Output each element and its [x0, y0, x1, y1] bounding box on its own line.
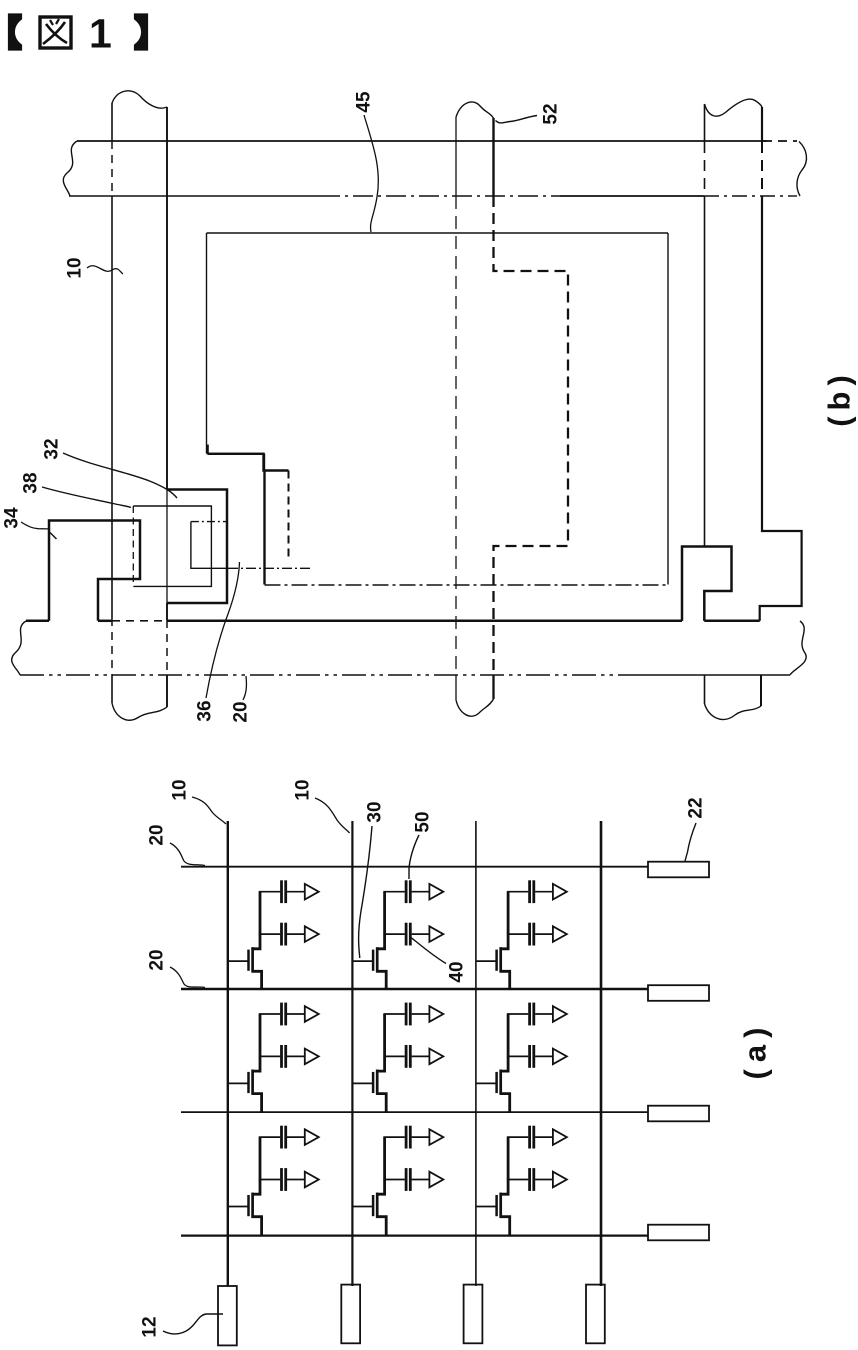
pad 12 data line 3 [464, 1285, 483, 1344]
leader 50 [409, 835, 419, 879]
capacitor 50 branch 2 r2c1 [280, 1045, 283, 1068]
diode 40 branch 1 r1c2 [429, 884, 443, 900]
leader 45 [364, 115, 378, 232]
scan line 20 row 2 (a) [181, 988, 648, 991]
svg-text:36: 36 [195, 700, 216, 721]
title kanji ZU (figure) [40, 17, 71, 48]
break squiggle left of top band [63, 141, 77, 196]
wire cap-to-diode branch 1 r2c1 [287, 1013, 305, 1015]
wire cap-to-diode branch 1 r1c3 [535, 891, 553, 893]
wire branch 2 r3c3 [507, 1179, 528, 1181]
svg-text:10: 10 [65, 257, 86, 278]
svg-text:45: 45 [354, 91, 375, 113]
leader 30 [359, 826, 372, 958]
capacitor 50 branch 2 r3c2 [405, 1168, 408, 1191]
drain electrode 36 dashed right edge [288, 471, 290, 562]
break squiggle bottom of data line 10 [112, 703, 167, 720]
leader 10 col2 (a) [315, 798, 350, 833]
svg-text:52: 52 [541, 103, 562, 124]
wire branch 2 r2c2 [383, 1055, 404, 1057]
wire scan line 20 bottom edge (b) [20, 674, 640, 676]
wire cap-to-diode branch 1 r3c1 [287, 1136, 305, 1138]
break squiggle top of right data line [705, 99, 763, 116]
diode 40 branch 1 r3c1 [305, 1129, 319, 1145]
leader 12 [163, 1314, 223, 1334]
wire cap-to-diode branch 2 r1c1 [287, 933, 305, 935]
wire cap-to-diode branch 1 r3c2 [412, 1136, 430, 1138]
wire scan line band bottom edge (b) [69, 195, 320, 197]
capacitor 50 branch 2 r1c1 [280, 923, 283, 946]
title bracket left [9, 14, 22, 50]
wire cap-to-diode branch 2 r1c2 [412, 933, 430, 935]
wire cap-to-diode branch 1 r2c3 [535, 1013, 553, 1015]
pad 12 data line 4 [586, 1285, 605, 1344]
break squiggle top of line 52 [456, 102, 494, 118]
leader 10 (b) [87, 266, 123, 274]
wire branch 2 r1c1 [259, 933, 280, 935]
data line 10 column 3 (a) [475, 821, 477, 1286]
svg-text:(a): (a) [738, 1021, 773, 1080]
wire cap-to-diode branch 1 r1c2 [412, 891, 430, 893]
data line 10 right edge [166, 107, 168, 490]
transistor TFT r2c1 [228, 1082, 249, 1084]
source electrode 34 leader tick [50, 533, 57, 540]
right data line right edge with contact bump [761, 107, 763, 142]
wire branch 1 r1c2 [383, 891, 404, 893]
wire cap-to-diode branch 2 r2c1 [287, 1055, 305, 1057]
drain electrode 36 staircase [206, 445, 208, 454]
wire cap-to-diode branch 2 r2c2 [412, 1055, 430, 1057]
pad 22 scan line 3 [648, 1106, 709, 1122]
svg-text:20: 20 [147, 824, 168, 845]
drain contact at right data line [682, 547, 732, 621]
svg-text:20: 20 [147, 949, 168, 970]
break squiggle right of bottom band [790, 621, 806, 675]
wire branch 1 r2c1 [259, 1013, 280, 1015]
transistor TFT r1c1 [228, 960, 249, 962]
wire branch 1 r3c3 [507, 1136, 528, 1138]
right data line left edge [704, 104, 706, 142]
capacitor 50 branch 1 r1c3 [528, 880, 531, 903]
wire branch 1 r2c2 [383, 1013, 404, 1015]
capacitor 50 branch 1 r1c2 [405, 880, 408, 903]
data line 10 column 4 (a) [600, 821, 603, 1286]
diode 40 branch 2 r2c3 [553, 1049, 567, 1065]
storage line 52 right edge hidden outline (dashed detour) [494, 196, 569, 675]
pad 22 scan line 4 [648, 1225, 709, 1241]
title bracket right [135, 14, 148, 50]
capacitor 50 branch 1 r2c2 [405, 1003, 408, 1026]
data line 10 column 1 (a) [227, 821, 229, 1286]
capacitor 50 branch 1 r1c1 [280, 880, 283, 903]
diode 40 branch 2 r1c3 [553, 926, 567, 942]
diode 40 branch 1 r1c1 [305, 884, 319, 900]
wire cap-to-diode branch 2 r1c3 [535, 933, 553, 935]
diode 40 branch 2 r1c2 [429, 926, 443, 942]
wire scan line band top edge (b) [77, 140, 767, 142]
leader 34 [21, 522, 48, 529]
capacitor 50 branch 2 r2c2 [405, 1045, 408, 1068]
wire scan line 20 top edge (b) [26, 620, 49, 623]
leader 10 col1 (a) [192, 797, 226, 824]
pixel electrode 45 right edge [667, 233, 669, 585]
transistor TFT r1c2 [352, 960, 373, 962]
pad 22 scan line 1 [648, 862, 709, 878]
capacitor 50 branch 2 r2c3 [528, 1045, 531, 1068]
gate electrode 32 [167, 490, 227, 604]
pad 12 data line 2 [341, 1285, 360, 1344]
break squiggle bottom of right data line [705, 704, 762, 719]
break squiggle right of top band [797, 142, 807, 197]
wire branch 2 r3c2 [383, 1179, 404, 1181]
svg-text:20: 20 [231, 701, 252, 722]
transistor TFT r2c3 [476, 1082, 497, 1084]
scan line 20 row 1 (a) [181, 866, 648, 868]
leader 20 row1 (a) [170, 843, 205, 866]
wire cap-to-diode branch 1 r2c2 [412, 1013, 430, 1015]
svg-text:10: 10 [293, 779, 314, 800]
diode 40 branch 2 r1c1 [305, 926, 319, 942]
leader 52 [496, 116, 538, 123]
pad 22 scan line 2 [648, 985, 709, 1001]
diode 40 branch 1 r2c1 [305, 1006, 319, 1022]
capacitor 50 branch 1 r3c1 [280, 1126, 283, 1149]
wire branch 1 r3c2 [383, 1136, 404, 1138]
wire cap-to-diode branch 2 r3c2 [412, 1179, 430, 1181]
diode 40 branch 1 r2c2 [429, 1006, 443, 1022]
storage line 52 left edge [455, 117, 457, 196]
break squiggle top of data line 10 [112, 91, 167, 108]
wire branch 2 r2c1 [259, 1055, 280, 1057]
capacitor 50 branch 1 r3c3 [528, 1126, 531, 1149]
svg-text:(b): (b) [822, 369, 857, 427]
capacitor 50 branch 2 r3c3 [528, 1168, 531, 1191]
capacitor 50 branch 2 r1c3 [528, 923, 531, 946]
capacitor 50 branch 1 r2c3 [528, 1003, 531, 1026]
wire branch 2 r3c1 [259, 1179, 280, 1181]
wire cap-to-diode branch 2 r3c1 [287, 1179, 305, 1181]
storage line 52 right edge (solid above band) [492, 118, 494, 196]
pixel electrode 45 top edge [207, 232, 669, 234]
diode 40 branch 1 r1c3 [553, 884, 567, 900]
wire branch 2 r1c3 [507, 933, 528, 935]
svg-text:10: 10 [170, 779, 191, 800]
transistor TFT r3c2 [352, 1206, 373, 1208]
wire branch 1 r1c1 [259, 891, 280, 893]
wire cap-to-diode branch 2 r2c3 [535, 1055, 553, 1057]
diode 40 branch 2 r3c1 [305, 1172, 319, 1188]
wire branch 1 r1c3 [507, 891, 528, 893]
diode 40 branch 1 r2c3 [553, 1006, 567, 1022]
data line 10 column 2 (a) [351, 821, 353, 1286]
svg-text:32: 32 [42, 438, 63, 459]
leader 20 (b) [243, 676, 246, 700]
break squiggle bottom of line 52 [456, 699, 494, 716]
diode 40 branch 2 r3c2 [429, 1172, 443, 1188]
pad 12 data line 1 [218, 1286, 237, 1345]
wire branch 2 r1c2 [383, 933, 404, 935]
drain electrode 36 left edge [263, 471, 265, 585]
diode 40 branch 2 r2c2 [429, 1049, 443, 1065]
wire cap-to-diode branch 2 r3c3 [535, 1179, 553, 1181]
contact hole outline [191, 521, 227, 523]
svg-text:38: 38 [21, 472, 42, 493]
capacitor 50 branch 1 r3c2 [405, 1126, 408, 1149]
scan line 20 row 3 (a) [181, 1111, 648, 1113]
wire branch 1 r3c1 [259, 1136, 280, 1138]
wire branch 2 r2c3 [507, 1055, 528, 1057]
scan line 20 row 4 (a) [181, 1234, 648, 1236]
transistor TFT r3c1 [228, 1206, 249, 1208]
svg-text:50: 50 [413, 811, 434, 832]
drain electrode 36 bottom chain [228, 567, 312, 569]
transistor TFT r1c3 [476, 960, 497, 962]
svg-text:22: 22 [686, 797, 707, 818]
diode 40 branch 1 r3c3 [553, 1129, 567, 1145]
pixel electrode 45 bottom edge (chain) [265, 584, 669, 586]
leader 22 [685, 823, 696, 861]
transistor TFT r3c3 [476, 1206, 497, 1208]
break squiggle left of bottom band [12, 621, 26, 675]
leader 20 row2 (a) [170, 967, 205, 988]
pixel electrode 45 step edge [207, 453, 265, 455]
diode 40 branch 1 r3c2 [429, 1129, 443, 1145]
leader 36 [206, 562, 240, 698]
leader 40 [410, 937, 446, 964]
diode 40 branch 2 r3c3 [553, 1172, 567, 1188]
svg-text:30: 30 [365, 801, 386, 822]
svg-text:34: 34 [2, 507, 23, 529]
pixel electrode 45 left edge [206, 233, 208, 454]
source electrode 34 [49, 521, 140, 621]
leader 38 [42, 487, 131, 508]
capacitor 50 branch 2 r3c1 [280, 1168, 283, 1191]
data line 10 left edge [111, 103, 113, 141]
capacitor 50 branch 2 r1c2 [405, 923, 408, 946]
transistor TFT r2c2 [352, 1082, 373, 1084]
wire cap-to-diode branch 1 r1c1 [287, 891, 305, 893]
semiconductor island 38 [133, 506, 211, 586]
svg-text:1: 1 [89, 11, 112, 57]
diode 40 branch 2 r2c1 [305, 1049, 319, 1065]
leader 32 [63, 453, 177, 498]
svg-text:12: 12 [140, 1316, 161, 1337]
capacitor 50 branch 1 r2c1 [280, 1003, 283, 1026]
wire cap-to-diode branch 1 r3c3 [535, 1136, 553, 1138]
wire branch 1 r2c3 [507, 1013, 528, 1015]
svg-text:40: 40 [447, 961, 468, 982]
